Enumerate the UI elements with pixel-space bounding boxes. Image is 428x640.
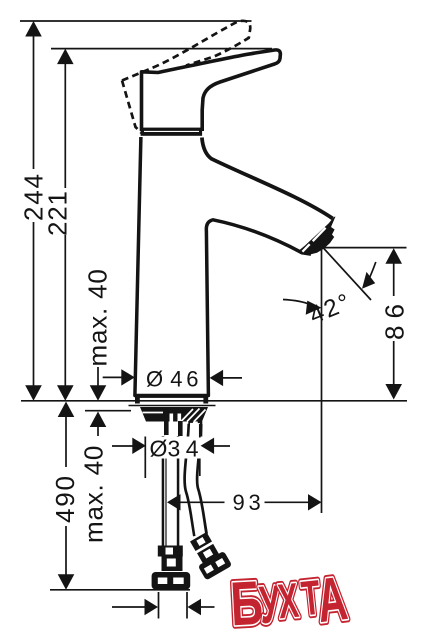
svg-text:max. 40: max. 40 — [79, 445, 109, 543]
white backing for Ø34 label — [147, 437, 203, 459]
svg-text:221: 221 — [43, 190, 73, 236]
angled hose connector nut — [190, 532, 212, 551]
svg-text:Ø34: Ø34 — [150, 436, 199, 462]
angled hose — [191, 423, 201, 536]
vertical line from aerator — [321, 248, 323, 513]
hose end line — [50, 589, 190, 591]
escutcheon hatched — [140, 407, 208, 422]
aerator at spout tip — [300, 217, 336, 256]
angled hose connector end cap — [198, 551, 232, 581]
dimension max.40 upper — [90, 367, 107, 401]
dashed raised handle — [122, 21, 250, 134]
svg-text:86: 86 — [380, 297, 410, 340]
svg-text:490: 490 — [50, 474, 80, 523]
label 221 — [43, 190, 73, 236]
42 degree arc arrow left — [283, 300, 322, 315]
label max. 40 upper — [83, 268, 113, 366]
dimension 86 — [322, 248, 407, 400]
label max. 40 lower — [79, 445, 109, 543]
label 490 — [50, 474, 80, 523]
42 degree arc arrow right — [362, 262, 376, 289]
angled hose connector block — [197, 544, 219, 563]
svg-text:Ø46: Ø46 — [146, 366, 198, 391]
straight hose connector — [152, 546, 191, 590]
dimension Ø46 arrows — [103, 369, 242, 386]
countertop line — [21, 400, 407, 402]
label Ø 46 — [146, 366, 198, 391]
dimension 244 vertical with arrows — [25, 21, 42, 401]
dimension Ø34 arrows — [112, 424, 230, 478]
dimension max.40 lower tick and arrow — [85, 411, 131, 436]
dimension line top 221 — [51, 48, 272, 50]
label 244 — [18, 172, 48, 221]
joint ring — [141, 128, 203, 136]
dimension line top 244 — [20, 20, 252, 22]
watermark BUHTA — [229, 564, 351, 639]
dimension 93 — [167, 494, 322, 510]
body bottom band — [135, 395, 208, 404]
42 degree diagonal — [323, 248, 371, 300]
dimension 490 vertical — [58, 402, 75, 590]
dimension 221 vertical with arrows — [57, 49, 74, 401]
faucet body and spout white fill — [135, 137, 335, 396]
label Ø34 — [150, 436, 199, 462]
svg-text:max. 40: max. 40 — [83, 268, 113, 366]
spout top edge curve — [202, 138, 333, 219]
bottom dimension arrows — [112, 592, 215, 619]
straight hose — [166, 435, 171, 548]
faucet body and spout outline — [135, 137, 311, 396]
label 86 — [380, 297, 410, 340]
label 42deg — [306, 288, 356, 329]
faucet head and lever — [142, 50, 281, 131]
shank and hose tops between escutcheon and Ø34 label — [166, 421, 200, 438]
label 93 — [233, 490, 261, 515]
escutcheon top plate line — [129, 405, 216, 407]
